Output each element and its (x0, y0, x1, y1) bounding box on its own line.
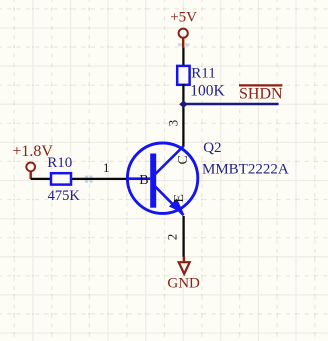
svg-text:C: C (176, 155, 191, 164)
resistor R11 body (177, 66, 189, 85)
wire +5V to R11 (182, 48, 184, 67)
Q2 base line (127, 177, 150, 180)
svg-text:+5V: +5V (170, 10, 197, 26)
svg-text:2: 2 (164, 234, 179, 241)
net label SHDN overline (239, 84, 282, 86)
ground stub (183, 257, 186, 263)
svg-text:Q2: Q2 (203, 140, 221, 156)
svg-text:B: B (139, 173, 148, 188)
wire R11 to Q2 collector pin (182, 84, 184, 146)
compile-mask marks on base wire (85, 176, 93, 183)
compile-mask marks below +5V port (178, 43, 190, 46)
svg-text:MMBT2222A: MMBT2222A (202, 161, 289, 177)
Q2 base bar (150, 154, 156, 208)
svg-text:GND: GND (167, 276, 200, 292)
power port +5V stub (182, 38, 184, 48)
transistor Q2 circle (127, 143, 197, 213)
Q2 emitter arrow (169, 199, 184, 214)
junction dot (179, 101, 188, 108)
power port +1.8V circle (26, 163, 35, 172)
wire Q2 emitter to GND (182, 216, 184, 257)
svg-text:R11: R11 (191, 65, 215, 81)
background grid (decorative) (32, 0, 34, 341)
svg-text:E: E (172, 194, 187, 203)
power port +5V circle (179, 29, 188, 38)
Q2 collector line (155, 146, 184, 175)
ground triangle (179, 262, 190, 274)
Q2 emitter line (155, 186, 184, 215)
svg-text:100K: 100K (190, 83, 225, 100)
wire to SHDN net (184, 103, 279, 106)
svg-text:SHDN: SHDN (239, 86, 283, 103)
svg-text:475K: 475K (48, 188, 81, 204)
svg-text:3: 3 (165, 120, 180, 127)
power port +1.8V stub (30, 171, 32, 179)
resistor R10 body (51, 173, 71, 184)
svg-text:1: 1 (103, 160, 110, 175)
wire +1.8V to Q2 base pin (31, 178, 127, 180)
svg-text:R10: R10 (47, 155, 72, 171)
